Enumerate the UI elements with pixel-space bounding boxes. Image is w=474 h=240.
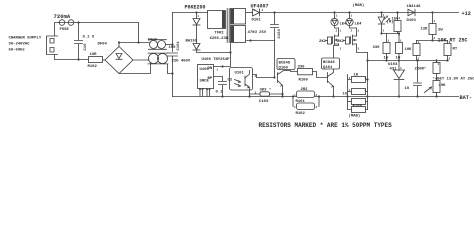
svg-text:R100: R100 xyxy=(299,79,309,83)
svg-text:330: 330 xyxy=(373,46,381,50)
svg-text:1K: 1K xyxy=(354,74,359,78)
svg-text:TFR1: TFR1 xyxy=(215,32,225,36)
svg-text:BAT-: BAT- xyxy=(460,95,472,101)
svg-text:100: 100 xyxy=(169,46,177,50)
svg-text:720mA: 720mA xyxy=(54,13,71,20)
svg-text:DN: DN xyxy=(208,67,213,71)
svg-text:470U 25V: 470U 25V xyxy=(248,31,267,35)
svg-text:330: 330 xyxy=(298,66,306,70)
svg-text:Q100: Q100 xyxy=(279,66,289,70)
svg-text:DF04: DF04 xyxy=(98,43,108,47)
svg-text:P6KE200: P6KE200 xyxy=(185,5,206,11)
svg-text:2K2: 2K2 xyxy=(337,40,345,44)
svg-text:RESISTORS MARKED * ARE 1% 50PP: RESISTORS MARKED * ARE 1% 50PPM TYPES xyxy=(259,122,393,129)
svg-text:D103: D103 xyxy=(407,19,417,23)
svg-text:UF4007: UF4007 xyxy=(251,4,269,10)
svg-text:FUSE: FUSE xyxy=(60,28,70,32)
svg-text:150: 150 xyxy=(392,18,400,22)
svg-text:Q101: Q101 xyxy=(323,66,333,70)
svg-text:50-60Hz: 50-60Hz xyxy=(9,49,26,53)
svg-text:C10: C10 xyxy=(84,43,88,51)
svg-text:2R2: 2R2 xyxy=(301,88,309,92)
svg-text:LE4: LE4 xyxy=(340,23,348,27)
svg-text:0.1: 0.1 xyxy=(216,91,224,95)
svg-text:C101: C101 xyxy=(177,40,181,50)
svg-text:BC848: BC848 xyxy=(323,61,335,65)
svg-text:2W: 2W xyxy=(438,29,443,33)
svg-text:(MAB): (MAB) xyxy=(353,3,365,8)
svg-text:X296-23B: X296-23B xyxy=(210,37,229,41)
svg-text:0.1 X: 0.1 X xyxy=(83,36,95,40)
svg-text:10K: 10K xyxy=(439,84,447,88)
svg-text:1%: 1% xyxy=(343,93,348,97)
svg-text:(MAB): (MAB) xyxy=(349,114,361,119)
svg-text:C2: C2 xyxy=(228,79,233,83)
svg-text:BP: BP xyxy=(208,77,213,81)
svg-text:12K: 12K xyxy=(421,28,429,32)
svg-text:D101: D101 xyxy=(252,19,262,23)
svg-text:R102: R102 xyxy=(296,112,306,116)
svg-text:1W: 1W xyxy=(384,57,389,61)
svg-text:LE4: LE4 xyxy=(355,23,363,27)
svg-text:1U: 1U xyxy=(405,87,410,91)
svg-text:U103: U103 xyxy=(388,63,398,67)
svg-text:* SET 13.8V AT 25C: * SET 13.8V AT 25C xyxy=(433,77,474,82)
svg-text:+12: +12 xyxy=(462,11,471,17)
svg-text:U101: U101 xyxy=(235,72,245,76)
svg-text:R104: R104 xyxy=(353,104,363,108)
svg-text:3K3 *: 3K3 * xyxy=(260,88,272,93)
svg-text:BA159: BA159 xyxy=(186,40,198,44)
svg-text:10K: 10K xyxy=(405,48,413,52)
svg-text:1W: 1W xyxy=(396,57,401,61)
svg-text:R101: R101 xyxy=(296,100,306,104)
svg-text:10R: 10R xyxy=(90,53,98,57)
svg-text:R102: R102 xyxy=(88,65,98,69)
svg-text:220R*: 220R* xyxy=(415,67,427,72)
svg-text:1N4148: 1N4148 xyxy=(407,5,422,9)
svg-text:90-240VAC: 90-240VAC xyxy=(9,43,31,47)
svg-text:30mH: 30mH xyxy=(148,39,158,43)
svg-text:431: 431 xyxy=(390,68,398,72)
svg-text:10K RT 25C: 10K RT 25C xyxy=(438,38,468,44)
svg-text:U100 TNY254P: U100 TNY254P xyxy=(202,58,231,62)
svg-text:C103: C103 xyxy=(259,100,269,104)
svg-text:C104: C104 xyxy=(278,28,282,38)
svg-text:BC848: BC848 xyxy=(279,62,291,66)
svg-text:22U 400V: 22U 400V xyxy=(172,60,191,64)
svg-text:RT: RT xyxy=(453,48,458,52)
svg-text:CHARGER SUPPLY: CHARGER SUPPLY xyxy=(9,37,42,41)
svg-text:2K2: 2K2 xyxy=(319,40,327,44)
